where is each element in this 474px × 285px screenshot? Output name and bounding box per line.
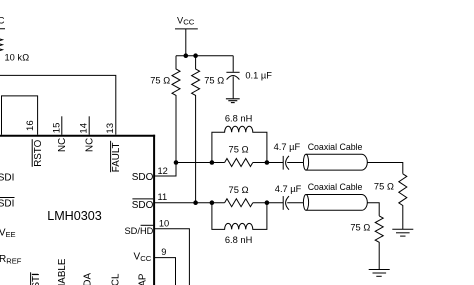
- svg-text:RSTO: RSTO: [33, 139, 44, 166]
- svg-text:75 Ω: 75 Ω: [229, 185, 249, 195]
- svg-text:VCC: VCC: [0, 16, 5, 26]
- pin label SDO-bar: [132, 199, 154, 211]
- resistor R6 75 Ohm (termination bottom): [375, 216, 383, 269]
- svg-text:SD/HD: SD/HD: [124, 226, 153, 236]
- node SDO branch left: [210, 160, 215, 165]
- ground (C1): [226, 99, 240, 103]
- svg-text:VCC: VCC: [134, 252, 152, 264]
- svg-text:9: 9: [161, 247, 166, 257]
- ground (R6): [369, 270, 390, 277]
- svg-text:SDA: SDA: [82, 272, 93, 285]
- svg-text:RREF: RREF: [0, 254, 22, 266]
- pin 15 NC stub: [61, 116, 63, 135]
- pin label RSTI (bottom, rotated, cut): [31, 272, 42, 285]
- svg-text:75 Ω: 75 Ω: [229, 145, 249, 155]
- wire W1 output: [367, 163, 403, 174]
- svg-text:CAP: CAP: [138, 273, 149, 285]
- wire FAULT pull-up to pin 13: [0, 75, 116, 134]
- svg-text:SDO: SDO: [132, 172, 154, 183]
- svg-text:FAULT: FAULT: [111, 142, 122, 172]
- node SDO junction: [174, 160, 179, 165]
- svg-text:VEE: VEE: [0, 228, 16, 240]
- wire pin 12 SDO: [154, 163, 176, 177]
- node SDO branch right: [265, 160, 270, 165]
- pin 14 NC stub: [88, 116, 90, 135]
- capacitor C3 4.7 uF: [283, 196, 303, 210]
- svg-text:14: 14: [79, 122, 90, 133]
- svg-text:13: 13: [105, 123, 116, 134]
- pin label FAULT (overlined, rotated): [111, 141, 123, 172]
- svg-text:75 Ω: 75 Ω: [350, 222, 370, 232]
- wire SDO line: [176, 162, 283, 164]
- svg-text:10: 10: [159, 218, 169, 228]
- svg-text:4.7 µF: 4.7 µF: [274, 142, 301, 152]
- pin label SD/HD (HD overlined): [124, 225, 153, 236]
- svg-text:SDI: SDI: [0, 172, 14, 183]
- coaxial cable W2: [303, 195, 367, 211]
- capacitor C1 0.1 uF: [226, 56, 239, 99]
- svg-text:4.7 µF: 4.7 µF: [275, 184, 302, 194]
- svg-text:15: 15: [52, 123, 63, 134]
- resistor R1 10 kOhm (cut at left edge): [0, 29, 3, 76]
- node VCC feed junction: [184, 53, 189, 58]
- svg-text:11: 11: [158, 192, 168, 202]
- resistor R7 75 Ohm (series SDO-bar): [225, 199, 253, 207]
- wire VCC rail: [176, 55, 233, 57]
- wire pin 11 SDO-bar: [154, 202, 225, 204]
- inductor L2 6.8 nH: [212, 203, 267, 230]
- svg-text:ENABLE: ENABLE: [57, 258, 68, 285]
- inductor L1 6.8 nH: [212, 126, 267, 162]
- svg-text:12: 12: [158, 166, 168, 176]
- node SDO-bar pull-up junction: [193, 200, 198, 205]
- resistor R3 75 Ohm (right pull-up): [192, 56, 200, 203]
- svg-text:Coaxial Cable: Coaxial Cable: [308, 182, 363, 192]
- svg-text:SDI: SDI: [0, 198, 14, 209]
- op-amp U1 LMH0303 box (cut at left/bottom): [0, 135, 155, 285]
- svg-text:0.1 µF: 0.1 µF: [245, 70, 272, 80]
- coaxial cable W1: [303, 154, 367, 170]
- node SDO-bar branch right: [265, 200, 270, 205]
- node SDO-bar branch left: [210, 200, 215, 205]
- svg-text:SDO: SDO: [132, 200, 154, 211]
- svg-text:6.8 nH: 6.8 nH: [225, 113, 252, 123]
- wire RSTO pull-up to pin 16: [2, 96, 38, 135]
- wire W2 output: [367, 203, 379, 216]
- svg-text:LMH0303: LMH0303: [47, 209, 102, 223]
- wire pin 10 SD/HD: [154, 229, 189, 285]
- svg-text:75 Ω: 75 Ω: [204, 75, 224, 85]
- power symbol VCC (cut at left edge): [0, 16, 5, 29]
- svg-text:Coaxial Cable: Coaxial Cable: [308, 142, 363, 152]
- svg-text:75 Ω: 75 Ω: [374, 182, 394, 192]
- pin label RSTO (overlined, rotated): [32, 139, 44, 167]
- resistor R5 75 Ohm (termination top): [399, 174, 407, 230]
- capacitor C2 4.7 uF: [283, 156, 303, 170]
- resistor R4 75 Ohm (series SDO): [225, 159, 253, 167]
- ground (R5): [392, 229, 413, 236]
- power symbol VCC (top rail): [175, 15, 198, 55]
- svg-text:NC: NC: [57, 138, 68, 152]
- pin label SDI-bar (left, cut): [0, 198, 15, 210]
- wire SDO-bar line right: [253, 202, 283, 204]
- node right resistor junction: [193, 53, 198, 58]
- resistor R2 75 Ohm (left pull-up): [172, 56, 180, 163]
- svg-text:16: 16: [25, 120, 36, 131]
- svg-text:10 kΩ: 10 kΩ: [5, 52, 30, 62]
- svg-text:75 Ω: 75 Ω: [150, 75, 170, 85]
- wire pin 9 VCC: [154, 258, 176, 285]
- svg-text:6.8 nH: 6.8 nH: [225, 235, 252, 245]
- svg-text:RSTI: RSTI: [31, 273, 42, 285]
- svg-text:NC: NC: [85, 138, 96, 152]
- svg-text:VCC: VCC: [177, 15, 195, 26]
- svg-text:SCL: SCL: [111, 273, 122, 285]
